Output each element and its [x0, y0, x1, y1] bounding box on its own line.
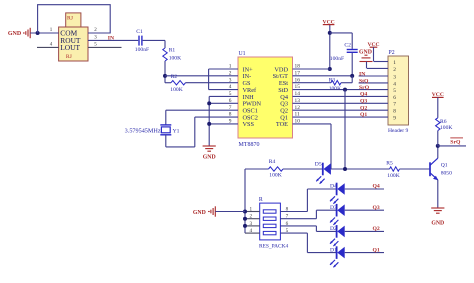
svg-text:100nF: 100nF: [330, 56, 344, 62]
svg-text:MT8870: MT8870: [239, 142, 260, 148]
svg-text:Q2: Q2: [373, 226, 380, 232]
svg-text:R1: R1: [169, 48, 176, 54]
svg-text:3: 3: [250, 221, 253, 227]
svg-text:7: 7: [286, 214, 289, 220]
svg-text:Q3: Q3: [360, 98, 367, 104]
svg-text:100K: 100K: [440, 125, 452, 131]
svg-text:3.579545MHz: 3.579545MHz: [125, 127, 161, 134]
svg-text:4: 4: [393, 81, 396, 87]
svg-text:RJ: RJ: [66, 54, 73, 60]
svg-text:R5: R5: [386, 161, 393, 167]
svg-text:IN: IN: [108, 36, 115, 42]
svg-text:Q4: Q4: [373, 184, 380, 190]
svg-text:9: 9: [393, 115, 396, 121]
svg-text:100nF: 100nF: [135, 47, 149, 53]
svg-text:TOE: TOE: [276, 121, 288, 128]
svg-text:Q1: Q1: [373, 247, 380, 253]
svg-text:100K: 100K: [329, 86, 341, 92]
svg-text:D1: D1: [330, 247, 337, 253]
svg-text:LOUT: LOUT: [60, 43, 80, 52]
svg-text:GND: GND: [203, 155, 216, 161]
svg-text:VCC: VCC: [432, 92, 444, 98]
svg-text:GND: GND: [8, 31, 22, 37]
svg-text:1: 1: [250, 207, 253, 213]
svg-text:StQ: StQ: [359, 78, 369, 84]
svg-text:Q1: Q1: [360, 112, 367, 118]
svg-text:5: 5: [286, 228, 289, 234]
svg-text:6: 6: [393, 95, 396, 101]
svg-text:4: 4: [250, 228, 253, 234]
svg-text:P2: P2: [389, 50, 395, 56]
svg-text:GND: GND: [193, 210, 206, 216]
svg-text:RJ: RJ: [67, 16, 74, 22]
svg-text:R3: R3: [329, 78, 336, 84]
svg-text:8: 8: [393, 109, 396, 115]
svg-text:D5: D5: [315, 162, 322, 168]
svg-text:Q1: Q1: [441, 163, 448, 169]
svg-text:D2: D2: [330, 226, 337, 232]
svg-text:SrQ: SrQ: [450, 140, 461, 146]
svg-text:VCC: VCC: [367, 42, 379, 48]
svg-text:RES_PACK4: RES_PACK4: [259, 244, 288, 250]
svg-text:2: 2: [393, 67, 396, 73]
svg-text:2: 2: [250, 214, 253, 220]
svg-text:Y1: Y1: [173, 128, 180, 134]
svg-text:VSS: VSS: [243, 121, 255, 128]
svg-text:GND: GND: [431, 220, 444, 226]
svg-text:100K: 100K: [387, 173, 399, 179]
svg-text:IN: IN: [359, 72, 366, 78]
svg-text:Header 9: Header 9: [388, 128, 409, 134]
svg-text:5: 5: [393, 88, 396, 94]
svg-text:3: 3: [393, 74, 396, 80]
svg-text:1: 1: [393, 60, 396, 66]
svg-text:7: 7: [393, 102, 396, 108]
svg-text:Q3: Q3: [373, 205, 380, 211]
svg-text:6: 6: [286, 221, 289, 227]
svg-text:C1: C1: [136, 29, 143, 35]
svg-text:C2: C2: [344, 42, 351, 48]
svg-text:R2: R2: [171, 74, 178, 80]
svg-text:R6: R6: [440, 119, 447, 125]
svg-text:8050: 8050: [441, 171, 452, 177]
svg-text:8: 8: [286, 207, 289, 213]
svg-text:R4: R4: [269, 159, 276, 165]
svg-text:SrQ: SrQ: [359, 85, 370, 91]
svg-text:100K: 100K: [170, 87, 182, 93]
svg-text:R: R: [259, 197, 263, 203]
svg-text:U1: U1: [239, 51, 246, 57]
svg-text:100K: 100K: [169, 56, 181, 62]
svg-text:Q2: Q2: [360, 105, 367, 111]
svg-text:D3: D3: [330, 205, 337, 211]
svg-text:Q4: Q4: [360, 92, 367, 98]
svg-text:VCC: VCC: [323, 19, 335, 25]
svg-text:D4: D4: [330, 184, 337, 190]
svg-text:100K: 100K: [269, 173, 281, 179]
